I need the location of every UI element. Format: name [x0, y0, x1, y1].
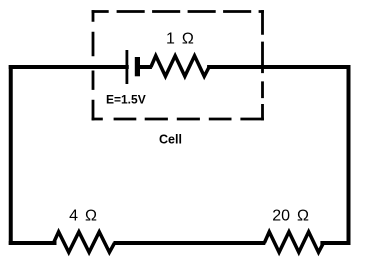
svg-text:4 Ω: 4 Ω — [69, 208, 97, 225]
dashed cell boundary box: right edge — [261, 10, 264, 120]
dashed cell boundary box: top edge — [92, 10, 264, 13]
dashed cell boundary box: left edge — [92, 10, 95, 120]
svg-text:20 Ω: 20 Ω — [272, 208, 309, 225]
resistor R2 4-ohm zigzag — [54, 232, 115, 253]
wire: bottom-middle segment between R2 and R3 — [114, 241, 266, 245]
wire: top-right segment from resistor R1 to right corner — [209, 65, 348, 69]
wire: top-left segment from left corner to battery — [11, 65, 127, 69]
resistor R1 1-ohm zigzag — [151, 56, 209, 77]
wire: left vertical side — [9, 67, 13, 243]
battery cell E: long positive plate — [126, 50, 129, 84]
wire: short segment between battery and resistor R1 — [137, 65, 152, 69]
svg-text:E=1.5V: E=1.5V — [106, 93, 146, 107]
wire: bottom-left segment to resistor R2 — [11, 241, 55, 245]
svg-text:Cell: Cell — [159, 132, 182, 146]
wire: right vertical side — [347, 67, 351, 243]
svg-text:1 Ω: 1 Ω — [166, 30, 194, 47]
resistor R3 20-ohm zigzag — [264, 232, 323, 253]
wire: bottom-right segment from R3 to right corner — [322, 241, 348, 245]
dashed cell boundary box: bottom edge — [92, 118, 264, 121]
battery cell E: short thick negative plate — [135, 57, 140, 76]
